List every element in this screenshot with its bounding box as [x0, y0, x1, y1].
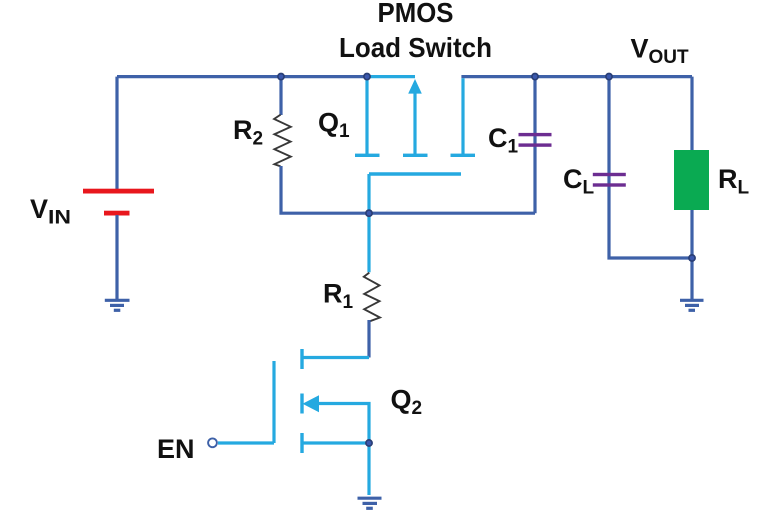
resistor RL green body — [674, 150, 709, 210]
svg-text:Q2: Q2 — [391, 385, 423, 420]
capacitor CL — [593, 173, 626, 176]
transistor Q2 drain bar — [300, 349, 303, 369]
transistor Q2 body bar — [300, 394, 303, 414]
transistor Q2 source bar — [300, 433, 303, 453]
wire VIN vertical bottom — [115, 215, 118, 300]
svg-text:C1: C1 — [488, 123, 519, 158]
transistor Q1 source leg — [365, 77, 368, 155]
svg-text:CL: CL — [563, 164, 595, 199]
battery V1 long plate — [83, 189, 154, 194]
transistor Q1 source bar — [355, 154, 380, 157]
wire C1 branch vertical — [533, 77, 536, 214]
transistor Q2 gate line — [272, 361, 275, 443]
svg-text:PMOS: PMOS — [378, 0, 454, 28]
ground (RL) — [680, 300, 704, 310]
transistor Q1 bulk leg — [413, 92, 416, 155]
transistor Q1 source tie wire — [367, 75, 415, 78]
wire CL branch vertical — [609, 77, 692, 258]
node at RL bottom — [689, 255, 695, 261]
transistor Q1 bulk arrow — [408, 79, 422, 94]
transistor Q2 source wire — [302, 441, 369, 444]
node at gate/R1 junction — [366, 210, 372, 216]
terminal EN circle — [208, 438, 217, 447]
node at Q2 source — [366, 440, 372, 446]
node at R2 top — [278, 74, 284, 80]
transistor Q1 gate bar — [369, 172, 461, 175]
wire Q2 source to ground — [367, 443, 370, 495]
wire top rail left (VIN to Q1 source node) — [117, 75, 367, 78]
node at C1 top — [532, 74, 538, 80]
ground (Q2) — [358, 498, 382, 508]
battery V1 short plate — [104, 211, 130, 216]
transistor Q1 drain leg — [461, 78, 464, 154]
resistor R2 — [274, 115, 291, 167]
svg-text:Q1: Q1 — [318, 108, 350, 143]
wire Q1 gate down to node — [367, 174, 370, 272]
svg-text:R2: R2 — [233, 115, 263, 150]
transistor Q2 drain wire — [302, 356, 369, 359]
wire RL bottom lead — [690, 210, 693, 300]
wire R2 bottom lead + bottom rail to C1 — [281, 166, 535, 213]
wire VIN vertical top — [115, 77, 118, 189]
capacitor C1 — [519, 133, 552, 136]
ground (VIN) — [105, 300, 130, 310]
wire top rail right (Q1 drain to RL corner) — [461, 75, 692, 78]
svg-text:EN: EN — [157, 434, 195, 464]
wire EN to gate — [218, 441, 274, 444]
wire RL top lead — [690, 77, 693, 152]
svg-text:VOUT: VOUT — [631, 34, 690, 69]
svg-text:RL: RL — [718, 164, 750, 199]
wire R1 bottom lead — [367, 320, 370, 358]
transistor Q2 body wire — [317, 404, 369, 444]
svg-text:R1: R1 — [323, 279, 354, 314]
transistor Q1 bulk bar — [403, 154, 428, 157]
wire R2 top lead — [279, 77, 282, 115]
node at Q1 source — [364, 74, 370, 80]
resistor R1 — [364, 273, 380, 322]
transistor Q2 body arrow — [303, 395, 320, 412]
svg-text:Load Switch: Load Switch — [339, 32, 492, 63]
node at CL top — [606, 74, 612, 80]
transistor Q1 drain bar — [451, 154, 476, 157]
svg-text:VIN: VIN — [30, 194, 71, 229]
